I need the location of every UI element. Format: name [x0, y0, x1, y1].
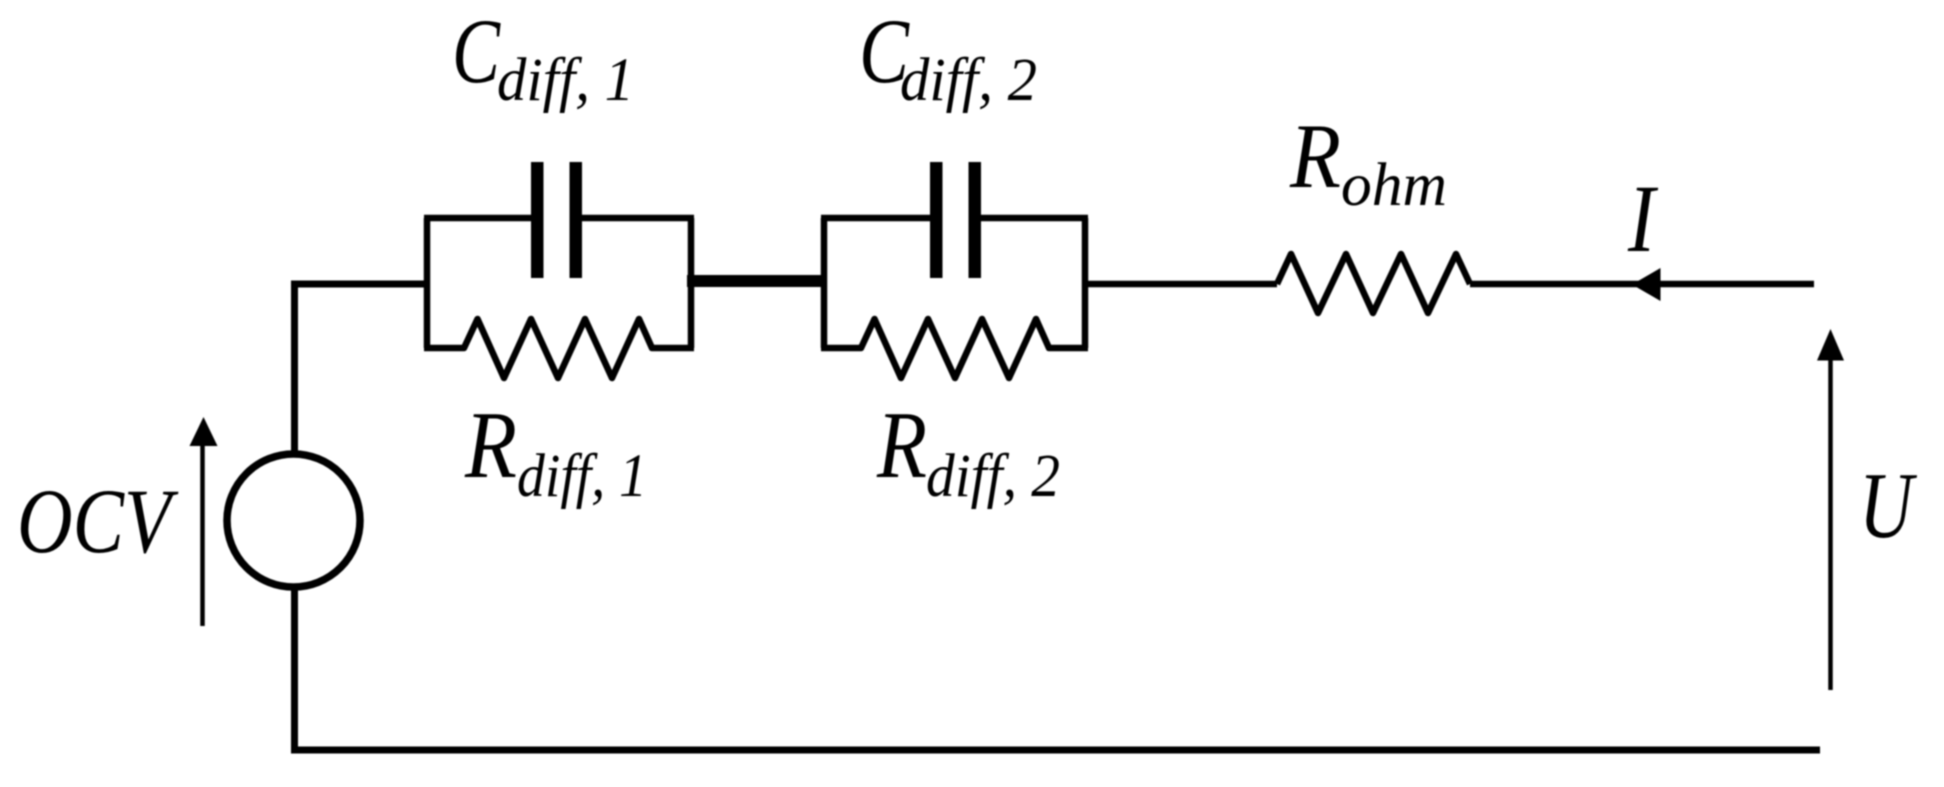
svg-text:diff, 1: diff, 1 — [497, 47, 634, 114]
label C_diff,2 — [859, 0, 1037, 114]
svg-text:diff, 1: diff, 1 — [517, 443, 647, 510]
resistor R_diff,1 zigzag — [424, 319, 694, 378]
svg-text:I: I — [1627, 165, 1658, 272]
capacitor C_diff,2 right plate — [969, 162, 982, 278]
arrowhead of OCV polarity (points up) — [190, 417, 218, 446]
label R_ohm — [1289, 105, 1447, 219]
svg-text:diff, 2: diff, 2 — [926, 443, 1060, 510]
arrow line of voltage U — [1828, 355, 1833, 690]
wire R_ohm to right port (current path) — [1470, 281, 1814, 288]
RC branch 2 box: right edge — [1082, 218, 1089, 348]
arrowhead of current I (points left) — [1632, 268, 1661, 301]
svg-text:U: U — [1859, 454, 1917, 558]
wire from OCV bottom to bottom rail — [291, 589, 298, 750]
svg-text:R: R — [464, 392, 517, 498]
RC branch 2 box: left edge — [821, 218, 828, 348]
RC branch 1 top wire to capacitor C_diff,1 — [424, 215, 694, 222]
svg-text:R: R — [876, 392, 927, 498]
label R_diff,1 — [464, 392, 647, 510]
wire RC2 to R_ohm — [1085, 281, 1277, 288]
arrow line of OCV polarity — [200, 442, 205, 626]
label C_diff,1 — [452, 0, 634, 114]
voltage source OCV (circle) — [227, 454, 360, 587]
wire bottom return rail — [291, 747, 1820, 754]
resistor R_ohm zigzag — [1277, 254, 1470, 313]
wire between RC1 and RC2 (thick) — [687, 275, 827, 287]
RC branch 1 box: left edge — [424, 218, 431, 348]
svg-text:R: R — [1289, 105, 1341, 207]
arrowhead of voltage U (points up) — [1817, 329, 1844, 361]
svg-text:ohm: ohm — [1341, 152, 1447, 219]
svg-text:diff, 2: diff, 2 — [900, 47, 1037, 114]
RC branch 1 box: right edge — [688, 218, 695, 348]
RC branch 2 top wire to capacitor C_diff,2 — [821, 215, 1088, 222]
wire from OCV top to RC1 left (node A) — [295, 284, 428, 452]
label R_diff,2 — [876, 392, 1060, 510]
capacitor C_diff,2 left plate — [930, 162, 943, 278]
svg-text:OCV: OCV — [17, 470, 179, 572]
capacitor C_diff,1 left plate — [531, 162, 544, 278]
capacitor C_diff,1 right plate — [570, 162, 583, 278]
svg-text:C: C — [452, 0, 501, 102]
resistor R_diff,2 zigzag — [821, 319, 1088, 378]
